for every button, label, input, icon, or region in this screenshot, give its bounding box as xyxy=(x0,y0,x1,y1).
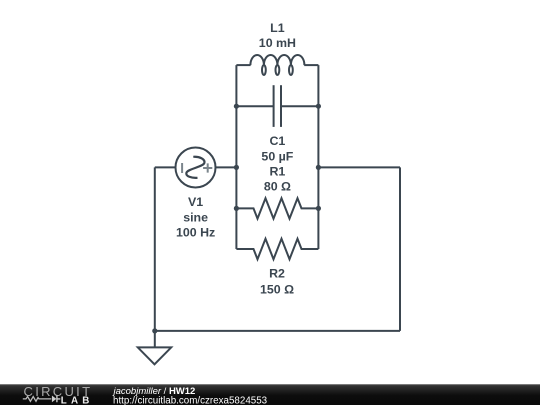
svg-text:50 µF: 50 µF xyxy=(261,149,293,163)
svg-text:150 Ω: 150 Ω xyxy=(260,282,294,296)
ground symbol xyxy=(138,347,171,364)
wire: ground stub xyxy=(154,331,156,348)
voltage source V1 circle xyxy=(176,148,216,188)
resistor R1 xyxy=(236,198,318,218)
voltage source V1 sine squiggle xyxy=(186,157,204,178)
wire: V1 left lead to outer left wire xyxy=(155,166,176,168)
wire: inner right vertical (L1 top to R2 bottom) xyxy=(317,65,319,249)
voltage source V1 minus sign xyxy=(181,163,183,173)
node: L1/C1 right junction xyxy=(316,104,321,109)
capacitor C1 xyxy=(274,85,281,127)
svg-text:100 Hz: 100 Hz xyxy=(176,225,215,239)
logo resistor zigzag xyxy=(23,397,52,402)
wire: outer left vertical xyxy=(154,167,156,331)
node: V1 right junction xyxy=(316,165,321,170)
wire: right node to outer right wire xyxy=(318,166,400,168)
svg-text:L1: L1 xyxy=(270,21,285,35)
footer bar xyxy=(0,384,540,405)
resistor R2 xyxy=(236,239,318,259)
svg-text:http://circuitlab.com/czrexa58: http://circuitlab.com/czrexa5824553 xyxy=(113,395,268,405)
wire: C1 left lead xyxy=(236,105,273,107)
wire: C1 right lead xyxy=(281,105,318,107)
wire: outer bottom horizontal xyxy=(155,330,400,332)
node: ground junction xyxy=(152,328,157,333)
inductor L1 xyxy=(250,55,304,75)
wire: L1 left lead xyxy=(236,64,250,66)
svg-text:R2: R2 xyxy=(269,267,285,281)
node: R1 right junction xyxy=(316,206,321,211)
node: R1 left junction xyxy=(234,206,239,211)
svg-text:10 mH: 10 mH xyxy=(259,36,296,50)
svg-text:LAB: LAB xyxy=(61,395,94,405)
node: V1 left junction xyxy=(234,165,239,170)
wire: V1 right lead to node xyxy=(216,166,237,168)
voltage source V1 plus sign xyxy=(203,163,212,172)
wire: L1 right lead xyxy=(304,64,318,66)
wire: outer right vertical xyxy=(399,167,401,331)
node: L1/C1 left junction xyxy=(234,104,239,109)
svg-text:V1: V1 xyxy=(188,195,203,209)
svg-text:C1: C1 xyxy=(269,134,285,148)
svg-text:R1: R1 xyxy=(269,165,285,179)
svg-text:sine: sine xyxy=(183,211,208,225)
wire: inner left vertical (L1 top to R2 bottom) xyxy=(235,65,237,249)
svg-text:80 Ω: 80 Ω xyxy=(264,180,291,194)
logo diode xyxy=(52,396,57,403)
